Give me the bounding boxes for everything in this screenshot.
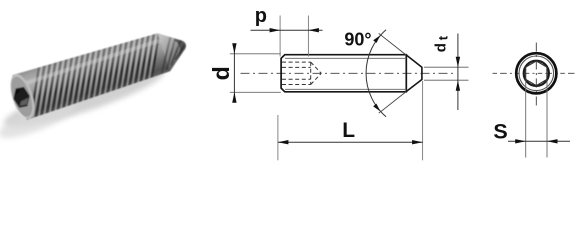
photo cone tip dark edge — [171, 37, 190, 61]
d arrow top — [232, 43, 236, 54]
arc arrowhead bottom — [373, 104, 380, 112]
dt arrow top — [456, 57, 460, 67]
svg-text:S: S — [493, 120, 507, 144]
photo cone thread hints — [150, 30, 190, 74]
socket hidden line (outer bottom) — [282, 84, 311, 86]
p arrow right — [308, 28, 319, 32]
S extension line right — [546, 81, 548, 158]
dt extension line top — [424, 66, 469, 68]
L arrow left — [278, 140, 289, 144]
cone point outline — [406, 55, 422, 92]
S arrow right — [547, 139, 558, 143]
photo cone point — [157, 26, 192, 71]
socket drill cone hidden chevron — [311, 62, 322, 84]
cone face extension line top — [379, 33, 407, 55]
end view vertical centerline — [535, 43, 537, 106]
S dimension line — [508, 140, 570, 142]
svg-text:p: p — [255, 5, 267, 27]
socket bottom vertical hidden line — [310, 62, 312, 84]
d extension line bottom — [230, 91, 281, 93]
p dimension line — [251, 29, 323, 31]
photo socket face rim — [6, 71, 40, 122]
p extension line left — [279, 16, 281, 57]
p arrow left — [270, 28, 281, 32]
socket hidden line (outer top) — [282, 61, 311, 63]
thread root line top — [285, 57, 406, 59]
photo thread crest lines — [18, 27, 172, 119]
socket hidden line (inner top) — [282, 66, 311, 68]
photo thread ridges — [15, 26, 175, 119]
svg-text:L: L — [342, 119, 355, 142]
photo socket face — [7, 74, 36, 119]
outer circle (major diameter) — [516, 53, 556, 93]
L dimension line — [278, 141, 423, 143]
d arrow bottom — [232, 92, 236, 103]
L arrow right — [412, 140, 423, 144]
svg-text:90°: 90° — [344, 30, 371, 50]
arc arrowhead top — [373, 35, 380, 43]
svg-text:d: d — [208, 66, 234, 80]
thread minor circle — [519, 56, 554, 91]
centerline (side view axis) — [241, 72, 454, 74]
d dimension line — [233, 46, 235, 101]
svg-text:dt: dt — [433, 34, 451, 52]
S arrow left — [515, 139, 526, 143]
end view horizontal centerline — [493, 72, 576, 74]
body outline — [281, 55, 406, 92]
90-degree dimension arc — [366, 30, 386, 117]
dt arrow bottom — [456, 80, 460, 91]
dt extension line bottom — [424, 79, 469, 81]
cone face extension line bottom — [379, 92, 407, 114]
p extension line right — [307, 16, 309, 57]
dt dimension line — [457, 34, 459, 111]
photo crest highlight band — [17, 38, 162, 88]
thread root line bottom — [285, 88, 406, 90]
socket hidden line (inner bottom) — [282, 78, 311, 80]
socket bore circle — [524, 61, 549, 86]
S extension line left — [525, 81, 527, 158]
hex socket — [526, 61, 547, 86]
photo screw body — [12, 20, 192, 119]
d extension line top — [230, 53, 281, 55]
photo shadow — [0, 58, 168, 145]
photo hex socket — [12, 86, 32, 108]
L extension line right — [422, 81, 424, 160]
photo face rim highlight — [13, 99, 26, 121]
photo screw — [5, 20, 193, 123]
L extension line left — [277, 115, 279, 160]
